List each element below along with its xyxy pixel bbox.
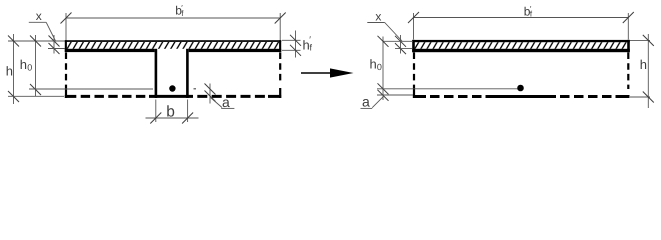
dimension h0 (left): top tick [30, 36, 41, 47]
svg-text:h: h [20, 57, 27, 72]
dimension b'f (left): right tick [275, 13, 286, 24]
dimension a (left): leader [211, 98, 223, 108]
svg-text:f: f [310, 43, 313, 53]
left flange bottom thick line (right of web) [189, 49, 282, 52]
bottom line solid middle segment (right figure) [486, 95, 557, 98]
bottom dashed line (right figure) [430, 95, 482, 98]
dimension x (left): leader line [46, 22, 55, 41]
bottom line solid right corner [268, 95, 281, 98]
dimension h (left): bottom tick [8, 91, 19, 102]
web left wall [155, 49, 158, 98]
dimension b'f (right): left extension line [413, 13, 415, 40]
bottom dashed line left part [81, 95, 146, 98]
dimension a (right): label underline [361, 107, 373, 109]
dimension h0 (right): dimension line [382, 37, 384, 101]
svg-text:a: a [222, 94, 230, 110]
svg-text:a: a [362, 94, 370, 110]
dimension x (right): top tick [395, 36, 406, 47]
left flange bottom thick line (left of web) [65, 49, 155, 52]
web right wall [186, 49, 189, 98]
svg-text:0: 0 [377, 62, 382, 72]
bottom line solid under web [149, 95, 193, 98]
svg-text:h: h [640, 57, 647, 72]
svg-text:0: 0 [27, 63, 32, 73]
bottom extension line (right figure left side) [377, 94, 413, 96]
bottom dashed line right part (right figure) [560, 95, 612, 98]
dashed left edge (right figure) [413, 53, 415, 90]
dimension x (right): bottom tick [395, 43, 406, 54]
dimension h (right): top extension line [630, 39, 650, 41]
left flange left edge cap [65, 40, 67, 52]
right flange left edge cap [412, 40, 415, 52]
dimension x (left): top tick [49, 36, 60, 47]
dimension h0 (right): bottom tick (section bottom) [378, 90, 389, 101]
dimension h (right): bottom tick [643, 92, 654, 103]
rebar level line short dash right of web (left figure) [194, 88, 197, 90]
dashed right edge of slab [279, 53, 281, 85]
rebar level line (right) [377, 88, 518, 90]
left flange right edge cap [279, 40, 281, 52]
extension line top-of-flange level (left) [8, 40, 65, 42]
dimension h0 (right): middle tick (rebar level) [378, 83, 389, 94]
svg-text:b: b [166, 104, 175, 121]
right flange top line [412, 40, 630, 42]
dimension h'f: top tick [290, 35, 301, 46]
dimension x (right): leader line [385, 23, 402, 42]
dimension b'f (right): right extension line [627, 13, 629, 40]
bottom line solid left corner (right figure) [413, 95, 426, 98]
solid bottom-right corner vertical piece [279, 88, 281, 98]
svg-text:x: x [36, 9, 42, 23]
dimension b: left extension line [155, 100, 157, 123]
svg-text:h: h [370, 57, 377, 72]
rebar dot (right figure) [517, 85, 524, 92]
transform arrow shaft [301, 72, 331, 74]
dashed right edge (right figure) [627, 53, 629, 90]
dimension b: right extension line [187, 100, 189, 123]
dimension b'f (left): left extension line [65, 13, 67, 40]
dimension b'f (right): dimension line [414, 17, 629, 19]
bottom extension line (left) [8, 95, 64, 97]
dimension h0 (left): bottom tick [30, 84, 41, 95]
dimension h0 (left): dimension line [35, 35, 37, 97]
dimension b'f (left): dimension line [66, 17, 280, 19]
dimension b'f (right): left tick [408, 12, 419, 23]
dimension b: right tick [182, 113, 193, 124]
dimension h'f: top extension line [282, 39, 301, 41]
extension line bottom-of-hatch level (right) [395, 48, 412, 50]
transform arrow head [330, 68, 354, 77]
dimension x (left): bottom tick [49, 43, 60, 54]
svg-text:f: f [181, 9, 184, 18]
dimension h'f: dimension line [295, 31, 297, 58]
dimension h (left): dimension line [13, 34, 15, 104]
dimension a (left): dimension line [209, 84, 211, 104]
bottom dashed line right part [197, 95, 265, 98]
dimension x (right): dimension line [400, 35, 402, 54]
dimension a (left): label underline [221, 107, 234, 109]
dashed left edge of slab [65, 53, 67, 90]
solid bottom-left corner vertical piece [65, 89, 67, 98]
rebar level line (left) [29, 88, 153, 90]
dimension b: dimension line [146, 117, 199, 119]
dimension b'f (left): right extension line [279, 13, 281, 40]
dimension a (left): top tick [205, 84, 216, 95]
left flange top line [65, 40, 281, 42]
rebar dot (left figure) [169, 85, 175, 91]
bottom line solid right corner (right figure) [616, 95, 630, 98]
right flange hatch [415, 42, 628, 49]
extension line bottom-of-hatch level (left) [48, 48, 65, 50]
dimension b'f (left): left tick [61, 13, 72, 24]
dimension a (right): leader [372, 96, 383, 107]
dimension b'f (right): right tick [623, 12, 634, 23]
right flange right edge cap [627, 40, 630, 52]
svg-text:h: h [6, 63, 13, 78]
dimension h (right): bottom extension line [630, 96, 650, 98]
dimension x (left): dimension line [53, 35, 55, 54]
dimension h (right): dimension line [647, 34, 649, 108]
dimension h0 (right): top tick [378, 36, 389, 47]
dimension x (right): label underline [367, 22, 384, 24]
dimension h'f: bottom extension line [282, 49, 301, 51]
bottom line solid left corner [65, 95, 77, 98]
dimension a (left): bottom tick [205, 91, 216, 102]
solid bottom-left corner vertical piece (right figure) [413, 89, 415, 98]
extension line top-of-flange level (right) [383, 40, 413, 42]
right flange bottom thick line [412, 49, 630, 52]
dimension x (left): label underline [29, 21, 46, 23]
svg-text:x: x [375, 9, 381, 23]
dimension h'f: bottom tick [290, 45, 301, 56]
dimension h (left): top tick [8, 36, 19, 47]
left flange hatch (compression zone) [67, 42, 280, 49]
dimension h (right): top tick [643, 35, 654, 46]
dimension b: left tick [150, 113, 161, 124]
